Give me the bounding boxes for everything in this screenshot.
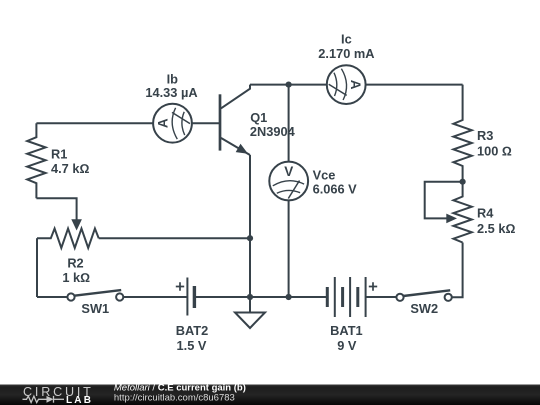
logo diode triangle — [47, 396, 54, 403]
svg-text:R4: R4 — [477, 206, 494, 221]
voltmeter U-Vce — [269, 162, 308, 201]
resistor R1 — [27, 123, 45, 198]
potentiometer R2 — [37, 229, 99, 248]
wire base row (R1 top to Q1 base) — [36, 122, 219, 124]
svg-text:Ic: Ic — [341, 32, 352, 47]
wire voltmeter branch — [288, 85, 290, 297]
switch SW2 left contact — [396, 294, 403, 301]
svg-text:R3: R3 — [477, 128, 493, 143]
svg-text:14.33 µA: 14.33 µA — [145, 85, 197, 100]
junction node emitter-R2 — [247, 235, 253, 241]
svg-text:LAB: LAB — [66, 395, 93, 405]
transistor Q1 emitter lead — [221, 138, 250, 155]
junction node emitter-ground — [247, 294, 253, 300]
svg-text:SW2: SW2 — [410, 301, 438, 316]
svg-text:4.7 kΩ: 4.7 kΩ — [51, 161, 89, 176]
battery BAT2 plus sign — [176, 282, 184, 290]
wire collector row — [250, 84, 463, 86]
transistor Q1 base bar — [219, 94, 222, 150]
junction node collector-voltmeter — [286, 82, 292, 88]
svg-text:V: V — [284, 164, 293, 179]
svg-text:9 V: 9 V — [337, 338, 357, 353]
svg-text:BAT2: BAT2 — [176, 323, 208, 338]
svg-text:1.5 V: 1.5 V — [177, 338, 207, 353]
svg-text:Vce: Vce — [313, 167, 336, 182]
svg-text:2.170 mA: 2.170 mA — [318, 46, 374, 61]
switch SW2 lever — [403, 290, 450, 296]
switch SW1 lever — [74, 290, 121, 296]
wire emitter vertical — [249, 155, 251, 297]
svg-text:100 Ω: 100 Ω — [477, 143, 512, 158]
transistor Q1 collector lead — [221, 85, 250, 109]
footer bar — [0, 385, 540, 405]
wire ground node to BAT1 — [250, 296, 327, 298]
battery BAT2 negative plate — [193, 286, 196, 308]
wire bottom row to SW1 — [37, 296, 67, 298]
svg-text:2N3904: 2N3904 — [250, 124, 296, 139]
svg-text:http://circuitlab.com/c8u6783: http://circuitlab.com/c8u6783 — [114, 392, 235, 403]
wiper arrow of R2 — [71, 219, 82, 230]
svg-text:1 kΩ: 1 kΩ — [62, 270, 90, 285]
battery BAT2 positive plate — [186, 278, 188, 316]
svg-text:Q1: Q1 — [250, 110, 267, 125]
transistor Q1 emitter arrow — [236, 144, 248, 154]
wire R4 wiper tap — [425, 182, 463, 219]
switch SW2 right contact — [445, 294, 452, 301]
wire SW1 to BAT2 — [123, 296, 187, 298]
svg-text:BAT1: BAT1 — [330, 323, 362, 338]
svg-text:A: A — [348, 80, 363, 90]
wire BAT1 to SW2 — [366, 296, 397, 298]
logo wire squiggle with diode — [23, 396, 65, 403]
wire R2 left down to bottom row — [36, 238, 38, 297]
svg-text:A: A — [156, 118, 171, 128]
battery BAT1 cell plates — [327, 287, 358, 307]
wire ground stem — [249, 297, 251, 313]
wiper arrow of R4 — [446, 214, 457, 224]
svg-text:R1: R1 — [51, 147, 67, 162]
svg-text:2.5 kΩ: 2.5 kΩ — [477, 221, 515, 236]
ground symbol — [235, 313, 265, 329]
svg-text:SW1: SW1 — [81, 301, 109, 316]
battery BAT1 plus sign — [369, 282, 377, 290]
switch SW1 right contact — [116, 293, 123, 300]
switch SW1 left contact — [67, 293, 74, 300]
resistor R3 — [453, 85, 471, 182]
junction node voltmeter-bottom — [286, 294, 292, 300]
wire R2 right to emitter node — [99, 237, 250, 239]
wire SW2 up right branch — [452, 243, 463, 298]
svg-text:R2: R2 — [67, 255, 83, 270]
ammeter U-Ic — [327, 65, 366, 104]
potentiometer R4 — [453, 182, 471, 243]
ammeter U-Ib — [153, 104, 192, 143]
wire BAT2 to ground node — [194, 296, 250, 298]
svg-text:6.066 V: 6.066 V — [313, 181, 358, 196]
junction node R3-R4 — [460, 179, 466, 185]
wire R1 bottom to R2 wiper — [36, 198, 76, 221]
